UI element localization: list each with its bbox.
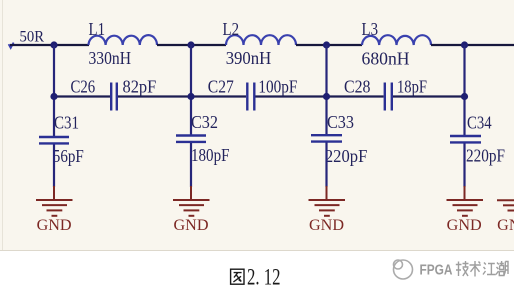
label L3 [362,19,379,39]
svg-text:GND: GND [309,217,344,234]
wire branch 2 lower [190,143,192,187]
wire vertical branch 1 upper [53,45,55,136]
node C2 junction dot [323,93,330,100]
svg-text:100pF: 100pF [258,77,297,97]
svg-text:82pF: 82pF [123,77,157,97]
label GND3 [309,217,344,234]
svg-text:C34: C34 [467,113,492,133]
svg-text:220pF: 220pF [325,146,367,166]
svg-text:330nH: 330nH [89,48,132,68]
node D2 junction dot [461,93,468,100]
wire cap-rail segment 5 [327,95,384,97]
label C32 [191,112,218,132]
svg-text:FPGA: FPGA [420,263,453,279]
label 390nH [226,48,272,68]
svg-text:GND: GND [497,217,514,234]
svg-text:L3: L3 [362,19,379,39]
watermark text FPGA [420,263,453,279]
svg-text:50R: 50R [20,29,45,46]
wire top segment 3 [296,44,362,46]
wire cap-rail segment 6 [393,95,465,97]
wire branch 3 lower [325,143,327,188]
svg-text:GND: GND [37,217,72,234]
inductor L3 [362,35,431,45]
label C33 [327,112,354,132]
label 18pF [397,77,427,97]
svg-text:L1: L1 [89,19,106,39]
ground GND1 [36,186,73,216]
svg-text:C33: C33 [327,112,354,132]
node B junction dot [187,41,194,48]
wire vertical branch 4 upper [463,45,465,135]
node C junction dot [323,41,330,48]
label 82pF [123,77,157,97]
caption text 2.12 [247,264,281,289]
label 180pF [191,145,230,165]
wire branch 4 lower [463,144,465,188]
label GND2 [174,217,209,234]
svg-text:2. 12: 2. 12 [247,264,281,289]
svg-text:GND: GND [447,217,482,234]
ground GND5 (clipped at right edge) [497,200,514,210]
svg-text:L2: L2 [223,19,240,39]
capacitor C34 [450,136,481,142]
label L1 [89,19,106,39]
label C27 [208,76,234,96]
label L2 [223,19,240,39]
svg-text:220pF: 220pF [466,146,505,166]
label 680nH [362,49,410,69]
wire cap-rail segment 2 [118,95,191,97]
label C34 [467,113,492,133]
wire top segment 4 [431,44,514,46]
label 56pF [53,146,84,166]
svg-text:C27: C27 [208,76,234,96]
watermark glyph 江 [483,263,496,275]
watermark glyph 湖 [496,261,508,276]
capacitor C26 [111,83,117,111]
inductor L2 [226,35,296,45]
ground GND2 [173,186,210,216]
caption 图 glyph [231,269,244,284]
label 220pF (C34) [466,146,505,166]
wire vertical branch 3 upper [325,45,327,134]
capacitor C32 [176,136,206,142]
wire top segment 2 [157,44,226,46]
svg-text:56pF: 56pF [53,146,84,166]
capacitor C27 [247,83,254,111]
wire cap-rail segment 1 [54,95,110,97]
svg-text:18pF: 18pF [397,77,427,97]
node A junction dot [50,41,57,48]
svg-text:C32: C32 [191,112,218,132]
ground GND4 [447,186,484,216]
capacitor C33 [311,135,342,141]
svg-text:C26: C26 [71,76,96,96]
svg-text:180pF: 180pF [191,145,230,165]
label C31 [54,113,79,133]
svg-text:390nH: 390nH [226,48,272,68]
label 100pF [258,77,297,97]
node B2 junction dot [187,93,194,100]
label GND5 (clipped) [497,217,514,234]
watermark logo circle [394,260,413,279]
svg-text:GND: GND [174,217,209,234]
capacitor C31 [39,137,69,143]
label 330nH [89,48,132,68]
node D junction dot [461,41,468,48]
label GND1 [37,217,72,234]
wire cap-rail segment 3 [191,95,246,97]
label C28 [344,76,371,96]
svg-text:C28: C28 [344,76,371,96]
label C26 [71,76,96,96]
wire cap-rail segment 4 [256,95,327,97]
svg-text:680nH: 680nH [362,49,410,69]
wire branch 1 lower [53,145,55,188]
svg-text:C31: C31 [54,113,79,133]
label 50R [20,29,45,46]
inductor L1 [89,35,158,45]
wire vertical branch 2 upper [190,45,192,135]
label 220pF (C33) [325,146,367,166]
port / input tick [9,43,14,48]
label GND4 [447,217,482,234]
node A2 junction dot [50,93,57,100]
wire top segment 1 [10,44,89,46]
capacitor C28 [385,83,392,111]
watermark glyph 术 [470,261,481,277]
ground GND3 [309,186,346,216]
watermark glyph 技 [456,261,469,276]
